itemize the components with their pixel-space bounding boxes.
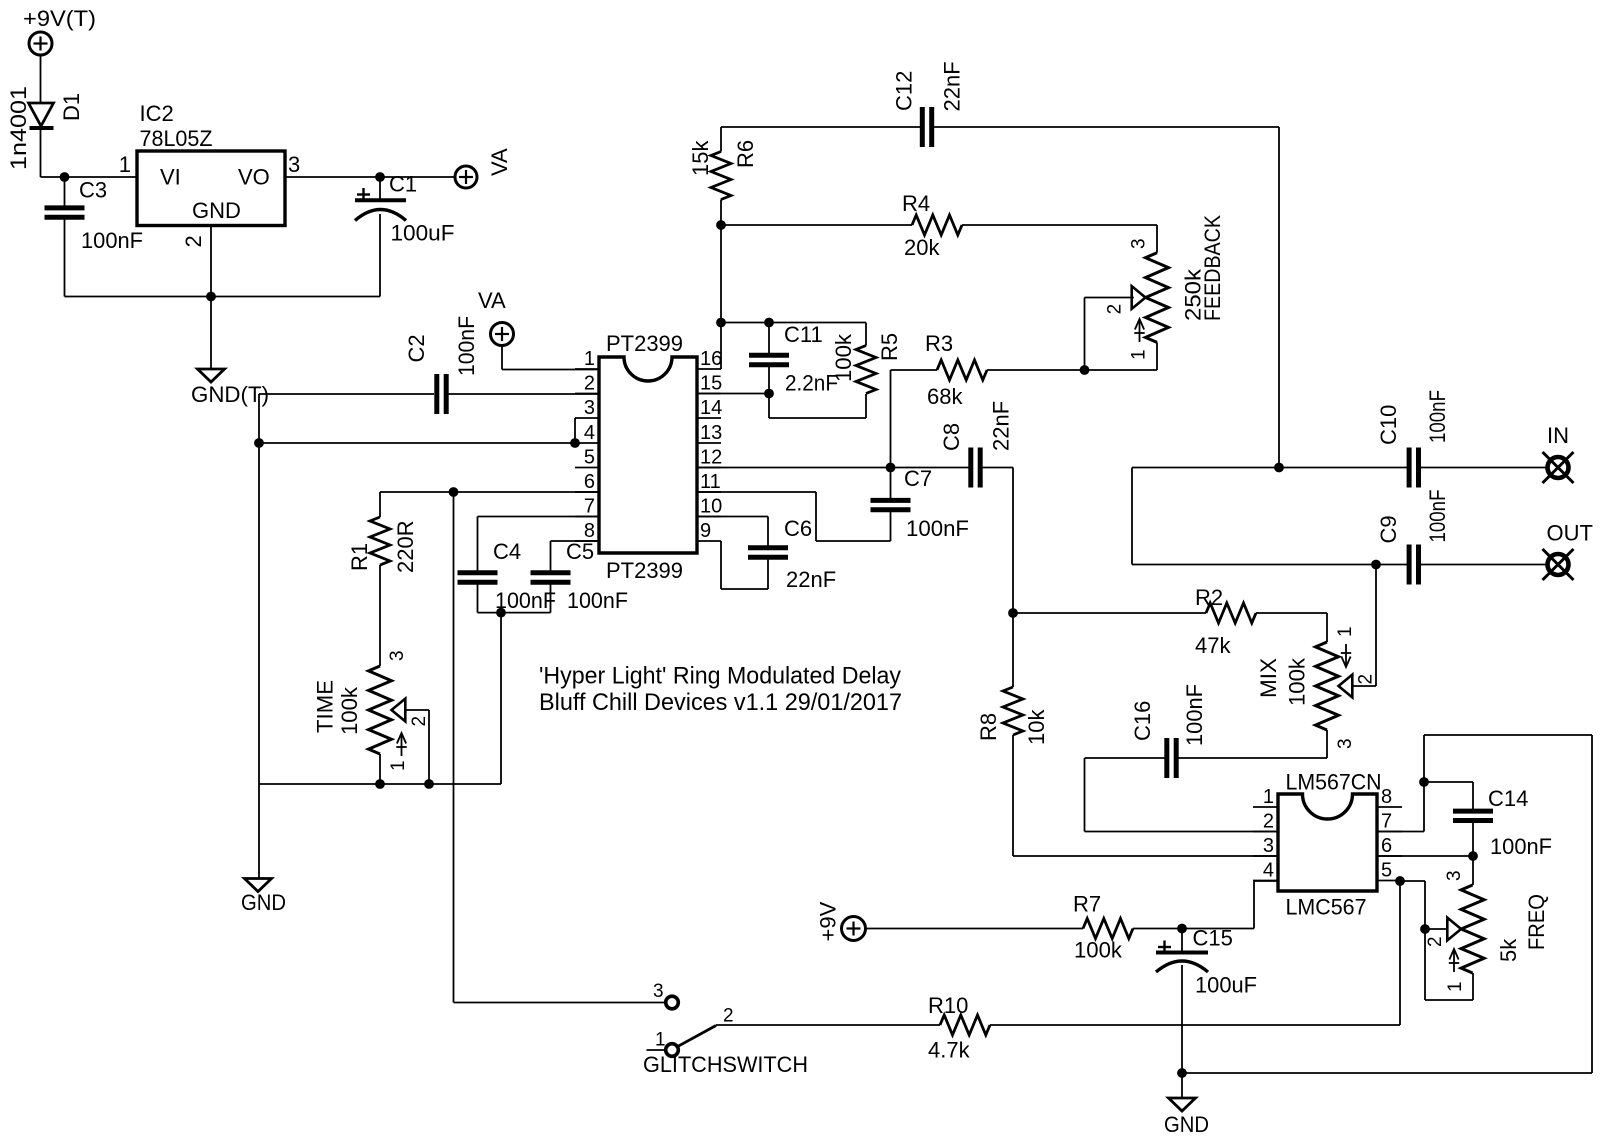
wire C12 line (721, 126, 922, 128)
wire pin8 (551, 540, 600, 542)
svg-text:2: 2 (409, 716, 430, 727)
svg-text:1: 1 (1335, 626, 1356, 637)
wire (258, 443, 260, 784)
power port +9V (842, 917, 866, 941)
wire (1085, 369, 1158, 371)
wire (41, 176, 138, 178)
junction (375, 779, 385, 789)
svg-text:PT2399: PT2399 (606, 331, 683, 356)
svg-text:2: 2 (181, 235, 206, 247)
resistor R3 68k (891, 369, 938, 371)
svg-text:+9V(T): +9V(T) (23, 6, 96, 31)
svg-text:LMC567: LMC567 (1286, 895, 1367, 920)
svg-text:100k: 100k (337, 686, 362, 735)
wire (1399, 881, 1401, 1025)
junction (1080, 365, 1090, 375)
svg-text:16: 16 (700, 348, 722, 370)
svg-text:LM567CN: LM567CN (1286, 770, 1382, 795)
svg-text:100nF: 100nF (1490, 834, 1552, 859)
svg-text:100k: 100k (831, 333, 856, 382)
wire pin7 (1377, 831, 1424, 833)
wire (720, 200, 722, 323)
svg-text:D1: D1 (59, 93, 84, 121)
junction (424, 779, 434, 789)
wire (210, 297, 212, 370)
wire (769, 417, 866, 419)
node pin16 (716, 318, 726, 328)
wire (1400, 880, 1425, 882)
svg-text:3: 3 (584, 397, 595, 419)
wire (1326, 613, 1328, 642)
node pin5 (1395, 876, 1405, 886)
wire pin4 (1254, 880, 1278, 882)
svg-text:R4: R4 (902, 191, 930, 216)
svg-text:R5: R5 (877, 333, 902, 361)
wire (1419, 564, 1547, 566)
svg-text:3: 3 (1263, 835, 1274, 857)
wire (1472, 973, 1474, 1000)
capacitor C15 100uF (electrolytic) (1181, 929, 1183, 953)
node R2/R8 (1008, 608, 1018, 618)
wire (258, 394, 260, 443)
svg-text:14: 14 (700, 397, 722, 419)
wire OUT line (1132, 564, 1409, 566)
wire (40, 55, 42, 102)
junction (1274, 463, 1284, 473)
ground symbol GND (245, 879, 272, 892)
wire pin7 (478, 516, 600, 518)
wire GND(T) net (259, 393, 434, 395)
svg-text:R10: R10 (928, 993, 968, 1018)
svg-text:VA: VA (478, 288, 506, 313)
svg-text:2: 2 (1356, 674, 1377, 685)
svg-text:C1: C1 (389, 172, 417, 197)
svg-text:FREQ: FREQ (1524, 894, 1549, 950)
potentiometer MIX 100k (1316, 642, 1339, 730)
wire (574, 418, 576, 443)
svg-text:R6: R6 (733, 140, 758, 168)
node pin6/R1/switch (449, 487, 459, 497)
potentiometer FEEDBACK 250k (1146, 253, 1169, 343)
wire pin6 line (380, 491, 599, 493)
node R6/R4 (716, 220, 726, 230)
ground symbol GND (1169, 1098, 1196, 1111)
junction (764, 389, 774, 399)
wire pin12 line (697, 467, 971, 469)
svg-text:R8: R8 (976, 713, 1001, 741)
svg-text:C16: C16 (1130, 701, 1155, 741)
potentiometer TIME 100k (369, 666, 392, 754)
svg-text:C6: C6 (784, 516, 812, 541)
svg-text:6: 6 (584, 471, 595, 493)
svg-text:100k: 100k (1074, 938, 1123, 963)
svg-text:GND: GND (1164, 1112, 1209, 1137)
wire wiper (1085, 297, 1134, 299)
svg-text:100k: 100k (1285, 657, 1310, 706)
svg-text:FEEDBACK: FEEDBACK (1200, 215, 1225, 321)
svg-text:C11: C11 (784, 322, 823, 347)
wire (1012, 468, 1014, 688)
svg-text:VA: VA (487, 148, 512, 176)
wire (1326, 730, 1328, 758)
svg-text:220R: 220R (393, 520, 418, 573)
svg-text:GND: GND (192, 198, 241, 223)
capacitor C16 100nF (1167, 738, 1176, 778)
resistor R8 10k (1003, 687, 1023, 735)
svg-text:4.7k: 4.7k (928, 1038, 971, 1063)
wire (1084, 298, 1086, 371)
svg-text:2: 2 (1425, 936, 1446, 947)
wire (1375, 565, 1377, 687)
svg-text:5: 5 (584, 447, 595, 469)
svg-text:1: 1 (655, 1030, 666, 1051)
diode D1 1n4001 (29, 103, 54, 126)
wire (720, 541, 722, 589)
svg-text:MIX: MIX (1256, 658, 1281, 698)
wire (1131, 468, 1133, 565)
wire (1176, 757, 1327, 759)
svg-text:100nF: 100nF (1425, 390, 1450, 443)
junction (1177, 1068, 1187, 1078)
connector OUT jack (1543, 549, 1574, 580)
svg-text:VI: VI (160, 165, 181, 190)
junction (1420, 924, 1430, 934)
svg-text:100nF: 100nF (454, 316, 479, 376)
junction (764, 318, 774, 328)
wire wiper (1352, 685, 1376, 687)
capacitor C14 100nF (1472, 782, 1474, 811)
svg-text:100uF: 100uF (1195, 973, 1257, 998)
wire to switch (453, 492, 455, 1003)
svg-text:C9: C9 (1376, 515, 1401, 543)
junction (1419, 777, 1429, 787)
svg-text:100nF: 100nF (1425, 490, 1450, 543)
wire (502, 369, 599, 371)
wire (1156, 342, 1158, 370)
resistor R6 15k (711, 152, 731, 200)
svg-text:68k: 68k (927, 384, 963, 409)
wire (379, 565, 381, 666)
svg-text:1: 1 (1128, 349, 1149, 360)
svg-text:C7: C7 (904, 466, 932, 491)
resistor R7 100k (866, 928, 1083, 930)
svg-text:3: 3 (1128, 238, 1149, 249)
svg-text:GLITCHSWITCH: GLITCHSWITCH (643, 1052, 808, 1077)
svg-text:1: 1 (388, 760, 409, 771)
svg-text:78L05Z: 78L05Z (140, 126, 213, 151)
svg-text:Bluff Chill Devices v1.1 29/01: Bluff Chill Devices v1.1 29/01/2017 (539, 689, 902, 716)
svg-text:4: 4 (584, 422, 595, 444)
svg-text:11: 11 (700, 471, 721, 493)
wire (816, 540, 891, 542)
wire ground rail (65, 296, 381, 298)
svg-text:R7: R7 (1073, 892, 1101, 917)
wire (258, 784, 260, 879)
capacitor C12 22nF (922, 107, 931, 147)
wire (285, 176, 455, 178)
svg-text:15k: 15k (688, 140, 713, 176)
switch GLITCHSWITCH (666, 996, 679, 1009)
wire C11 line (721, 322, 866, 324)
svg-text:C2: C2 (404, 334, 429, 362)
wire (1425, 999, 1473, 1001)
svg-text:2: 2 (1105, 304, 1126, 315)
svg-text:1n4001: 1n4001 (6, 86, 31, 170)
wire (379, 754, 381, 784)
junction (254, 438, 264, 448)
svg-text:OUT: OUT (1547, 521, 1593, 546)
svg-text:3: 3 (653, 981, 664, 1002)
junction (570, 438, 580, 448)
wire bottom rail (1182, 1072, 1592, 1074)
capacitor C11 2.2nF (768, 323, 770, 356)
svg-text:100nF: 100nF (1182, 684, 1207, 746)
wire ground rail B (259, 783, 501, 785)
svg-text:100uF: 100uF (391, 221, 455, 246)
svg-text:C14: C14 (1488, 786, 1528, 811)
wire (446, 393, 599, 395)
wire (1424, 781, 1473, 783)
svg-text:R1: R1 (347, 543, 372, 571)
wire pin15 (697, 393, 769, 395)
junction (496, 608, 506, 618)
svg-text:C10: C10 (1376, 405, 1401, 445)
svg-text:3: 3 (1444, 870, 1465, 881)
wire (428, 710, 430, 784)
wire IC2 GND pin (210, 225, 212, 296)
svg-text:C15: C15 (1193, 926, 1233, 951)
wire wiper (1425, 928, 1447, 930)
svg-text:10: 10 (700, 496, 722, 518)
wire pin6 (1377, 855, 1473, 857)
svg-text:C12: C12 (892, 71, 917, 111)
svg-text:4: 4 (1263, 860, 1274, 882)
wire (501, 346, 503, 370)
ground symbol GND(T) (198, 369, 225, 382)
svg-text:TIME: TIME (313, 680, 338, 733)
wire (890, 370, 892, 468)
wire (1424, 929, 1426, 1000)
svg-text:VO: VO (238, 165, 270, 190)
svg-text:100nF: 100nF (567, 588, 628, 613)
svg-text:PT2399: PT2399 (606, 558, 683, 583)
resistor R5 100k (865, 323, 867, 346)
svg-text:9: 9 (700, 520, 711, 542)
capacitor C6 22nF (767, 517, 769, 548)
svg-text:3: 3 (387, 650, 408, 661)
node C3 tap (60, 172, 70, 182)
svg-text:47k: 47k (1195, 633, 1231, 658)
svg-text:20k: 20k (904, 235, 940, 260)
wire (932, 126, 1279, 128)
svg-text:C8: C8 (939, 423, 964, 451)
svg-text:7: 7 (584, 496, 595, 518)
regulator IC2 78L05Z (137, 151, 285, 226)
wire (1424, 881, 1426, 929)
svg-text:15: 15 (700, 373, 722, 395)
IC U2 LM567CN (1278, 794, 1377, 891)
wire (1423, 735, 1425, 832)
junction (1468, 851, 1478, 861)
wire (1084, 758, 1086, 832)
resistor R10 4.7k (716, 1024, 940, 1026)
wire (768, 394, 770, 419)
svg-text:GND: GND (241, 890, 286, 915)
wire (454, 1002, 667, 1004)
capacitor C9 100nF (1409, 545, 1418, 585)
svg-text:GND(T): GND(T) (191, 382, 269, 407)
wire (1419, 467, 1547, 469)
svg-text:+9V: +9V (816, 901, 841, 941)
power flag +9V(T) (29, 32, 52, 55)
svg-text:100nF: 100nF (81, 228, 143, 253)
wire (478, 612, 551, 614)
svg-text:22nF: 22nF (786, 567, 836, 592)
svg-text:R3: R3 (925, 331, 953, 356)
svg-text:100nF: 100nF (906, 516, 969, 541)
power port VA (491, 323, 514, 346)
junction (1177, 924, 1187, 934)
svg-text:3: 3 (1335, 738, 1356, 749)
svg-text:13: 13 (700, 422, 722, 444)
wire (720, 323, 722, 370)
wire top rail (1424, 734, 1592, 736)
wire (1278, 127, 1280, 468)
wire (1156, 225, 1158, 253)
svg-text:C3: C3 (79, 178, 107, 203)
wire pin10 (697, 516, 768, 518)
capacitor C10 100nF (1409, 448, 1418, 488)
wire (40, 130, 42, 177)
svg-text:12: 12 (700, 447, 722, 469)
svg-text:22nF: 22nF (989, 401, 1014, 451)
wire pin11 (697, 491, 816, 493)
node gnd rail (206, 292, 216, 302)
svg-text:1: 1 (584, 348, 595, 370)
svg-text:C5: C5 (566, 539, 594, 564)
svg-text:2: 2 (723, 1006, 734, 1027)
capacitor C2 100nF (437, 374, 446, 414)
svg-text:1: 1 (1263, 786, 1274, 808)
wire IN line (1132, 467, 1409, 469)
resistor R2 47k (1013, 612, 1206, 614)
wire (1181, 1073, 1183, 1098)
wire (815, 492, 817, 541)
svg-text:IN: IN (1547, 423, 1569, 448)
capacitor C8 22nF (971, 448, 980, 488)
wire (1012, 735, 1014, 856)
resistor R1 220R (379, 492, 381, 517)
svg-text:3: 3 (288, 152, 300, 177)
svg-text:R2: R2 (1195, 585, 1223, 610)
wire pins3-4 (259, 442, 575, 444)
wire (1253, 881, 1255, 929)
wire to LM567 pin2 (1085, 831, 1279, 833)
svg-text:10k: 10k (1024, 709, 1049, 745)
svg-text:5k: 5k (1496, 938, 1521, 962)
svg-text:6: 6 (1381, 835, 1392, 857)
junction (1371, 560, 1381, 570)
svg-text:7: 7 (1381, 811, 1392, 833)
svg-text:22nF: 22nF (940, 61, 965, 111)
wire (721, 588, 768, 590)
svg-text:2: 2 (1263, 811, 1274, 833)
capacitor C3 100nF (64, 177, 66, 208)
wire (720, 127, 722, 152)
capacitor C1 100uF (electrolytic) (379, 177, 381, 200)
node C1 tap (375, 172, 385, 182)
wire (1085, 757, 1167, 759)
capacitor C5 100nF (550, 541, 552, 573)
svg-text:IC2: IC2 (140, 101, 174, 126)
wire (980, 467, 1013, 469)
potentiometer FREQ 5k (1472, 856, 1474, 885)
resistor R4 20k (721, 224, 912, 226)
svg-text:'Hyper Light' Ring Modulated D: 'Hyper Light' Ring Modulated Delay (539, 663, 901, 690)
junction (886, 463, 896, 473)
IC U1 PT2399 (599, 357, 697, 553)
svg-text:C4: C4 (493, 539, 521, 564)
wire (405, 709, 429, 711)
svg-text:1: 1 (1445, 981, 1466, 992)
wire right rail (1591, 735, 1593, 1073)
capacitor C7 100nF (890, 468, 892, 501)
wire (500, 613, 502, 784)
connector IN jack (1543, 452, 1574, 483)
power port VA (455, 166, 477, 188)
wire to LM567 pin3 (1013, 855, 1278, 857)
svg-text:1: 1 (119, 152, 131, 177)
svg-text:2: 2 (584, 373, 595, 395)
svg-text:5: 5 (1381, 860, 1392, 882)
capacitor C4 100nF (477, 517, 479, 573)
svg-text:8: 8 (1381, 786, 1392, 808)
